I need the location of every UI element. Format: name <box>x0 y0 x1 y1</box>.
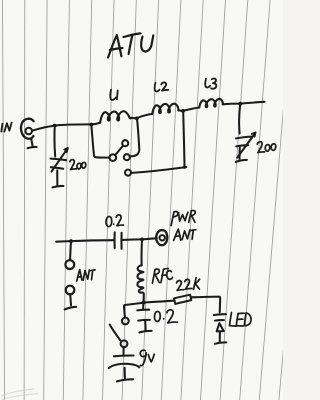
wire node to C3 <box>71 239 114 242</box>
label RFC <box>152 269 172 284</box>
connector J2 PWR ANT <box>156 230 167 245</box>
label 200 (right) <box>257 142 276 153</box>
wire node to J2 <box>142 238 157 239</box>
wire L3 to node <box>223 103 241 106</box>
wire contact D to bypass <box>131 167 186 173</box>
label 200 (left) <box>70 160 86 170</box>
connector J1 IN <box>21 119 37 148</box>
capacitor C1 variable 200 (left) <box>51 127 68 188</box>
wire bypass down-left to switch pivot <box>91 125 109 158</box>
wire node down (L2-L3 bypass) <box>183 112 184 168</box>
label LED <box>230 313 252 327</box>
node: junction dot RFC <box>140 238 144 242</box>
wire node to L2 <box>137 114 152 118</box>
inductor L3 <box>199 99 222 108</box>
node: junction dot L1 bypass <box>89 123 93 127</box>
wire node to end <box>240 102 264 104</box>
label PWR <box>171 210 195 225</box>
node: junction dot right cap <box>238 102 242 106</box>
wire node to L3 <box>183 108 199 111</box>
ground stub ANT <box>65 294 77 309</box>
wire L1 to node <box>131 117 137 119</box>
ground stub battery <box>117 368 133 382</box>
wire SW2 to battery <box>122 347 124 354</box>
terminal ANT gnd <box>66 286 75 295</box>
diode LED <box>214 314 226 344</box>
switch SW1 contact C <box>124 154 130 160</box>
switch SW1 contact D <box>125 170 131 176</box>
node: junction dot lower <box>142 301 146 305</box>
capacitor C2 variable 200 (right) <box>236 132 256 162</box>
wire R1 to LED <box>191 297 220 313</box>
node: junction bypass meet <box>183 166 186 169</box>
label IN <box>1 123 11 132</box>
switch SW1 arm <box>115 146 123 155</box>
wire IN to L1 <box>32 123 100 131</box>
switch SW1 contact B <box>122 140 128 146</box>
wire node down to contact C <box>130 119 139 157</box>
switch SW2 arm <box>110 325 121 341</box>
label L2 <box>155 82 169 91</box>
capacitor C4 0.2 bypass <box>137 304 151 333</box>
inductor RFC <box>137 265 143 301</box>
inductor L2 <box>152 104 178 114</box>
inductor L1 <box>100 111 131 122</box>
wire node right to R1 <box>144 301 174 303</box>
resistor R1 22K <box>174 295 191 304</box>
label L3 <box>205 78 216 88</box>
node: junction dot ANT <box>69 239 73 243</box>
label L1 <box>110 90 117 100</box>
title ATU <box>108 33 153 57</box>
label ANT (right) <box>174 229 196 241</box>
node: junction dot left cap <box>53 124 57 128</box>
battery BT1 9V <box>109 355 140 368</box>
node: junction dot L1-L2 <box>135 117 139 121</box>
switch SW2 contact bottom <box>121 340 128 347</box>
label 22K <box>177 278 200 291</box>
wire node down to RFC <box>140 240 143 265</box>
wire L2 to node <box>178 109 183 111</box>
paper smudge bottom-left <box>1 389 38 400</box>
label 0.2 (lower) <box>154 310 177 323</box>
switch SW2 contact top <box>122 318 129 325</box>
wire node left to switch <box>124 303 144 318</box>
wire node down to C2 <box>239 104 240 133</box>
wire ANT branch down <box>69 241 72 260</box>
wire lower rail left <box>56 240 71 243</box>
label ANT (left) <box>77 270 95 281</box>
node: junction dot L2-L3 <box>181 109 185 113</box>
switch SW1 pivot contact <box>110 154 117 161</box>
label 0.2 (upper) <box>106 215 124 227</box>
label 9v <box>140 350 154 366</box>
terminal ANT hot <box>65 260 74 269</box>
capacitor C3 0.2 series <box>115 232 122 249</box>
wire C3 to node <box>122 238 142 241</box>
